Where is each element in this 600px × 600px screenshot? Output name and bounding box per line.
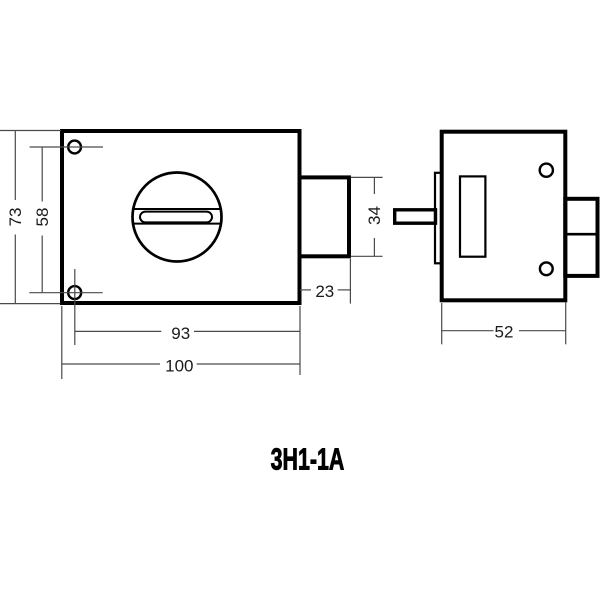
extension line bolt top for dim 34 — [351, 176, 383, 178]
dimension line 93 — [75, 330, 162, 332]
side view: latch divider — [565, 233, 597, 236]
side view: bottom screw hole — [540, 262, 553, 275]
front view: knob slot band lower chord — [133, 223, 221, 225]
extension line bolt bottom for dim 34 — [351, 255, 383, 257]
side view: latch — [565, 199, 597, 276]
side view: faceplate — [435, 173, 442, 263]
svg-text:52: 52 — [495, 323, 514, 342]
dimension line 100 — [62, 363, 160, 365]
extension line through bottom screw for dim 58 — [29, 292, 102, 294]
extension line bottom for dim 73 — [0, 303, 61, 305]
extension line below body right corner for dims 93 and 100 — [299, 306, 301, 375]
svg-text:58: 58 — [33, 208, 52, 227]
extension line below body left corner for dim 100 — [61, 306, 63, 379]
front view: bolt — [300, 177, 350, 256]
dimension line 34 — [373, 177, 375, 194]
svg-text:93: 93 — [171, 324, 190, 343]
extension line below side body left for dim 52 — [441, 303, 443, 344]
side view: top screw hole — [540, 164, 553, 177]
extension line top for dim 73 — [0, 130, 61, 132]
svg-text:3H1-1A: 3H1-1A — [271, 442, 345, 477]
svg-text:34: 34 — [365, 206, 384, 225]
extension line below bottom screw for dim 93 — [74, 269, 76, 345]
extension line through top screw for dim 58 — [30, 146, 103, 148]
side view: inner slot — [460, 176, 485, 256]
dimension line 73 — [14, 131, 16, 201]
front view: knob slot band upper chord — [133, 208, 220, 210]
side view: spindle — [395, 210, 436, 223]
svg-text:23: 23 — [315, 282, 334, 301]
dimension line 23 — [300, 289, 311, 291]
front view: bottom screw hole — [68, 286, 81, 299]
front view: top screw hole — [68, 141, 81, 154]
dimension line 52 — [442, 330, 494, 332]
front view: lock body outline — [62, 131, 300, 303]
extension line below bolt right edge for dim 23 — [349, 259, 351, 304]
side view: lock body outline — [442, 132, 566, 301]
svg-text:100: 100 — [165, 356, 193, 375]
front view: knob circle — [133, 173, 222, 262]
extension line below side body right for dim 52 — [565, 302, 567, 344]
svg-text:73: 73 — [6, 208, 25, 227]
front view: knob slot capsule — [140, 212, 212, 223]
dimension line 58 — [41, 147, 43, 202]
